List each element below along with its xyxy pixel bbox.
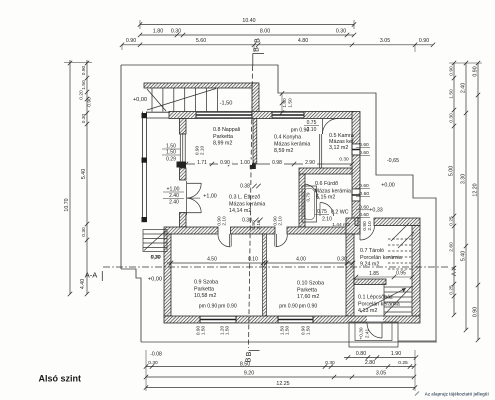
site boundary left segment	[121, 65, 141, 342]
svg-text:0.2 WC: 0.2 WC	[331, 210, 349, 216]
wall south main	[164, 316, 420, 323]
section line A-A	[103, 266, 448, 268]
porch outer	[349, 322, 398, 347]
svg-text:0.30: 0.30	[337, 257, 347, 263]
window partition west window	[180, 134, 185, 168]
svg-text:0.90: 0.90	[87, 97, 93, 107]
svg-text:0.90: 0.90	[220, 160, 230, 166]
wall east upper b	[352, 155, 360, 189]
svg-text:-0,65: -0,65	[387, 158, 399, 164]
stairs 0.7 diagonals	[391, 223, 409, 241]
svg-text:5.60: 5.60	[196, 38, 206, 44]
svg-text:B: B	[254, 38, 262, 43]
svg-text:pm 0.90: pm 0.90	[279, 304, 298, 310]
ground line	[141, 341, 437, 343]
svg-text:5,15 m2: 5,15 m2	[316, 195, 335, 201]
svg-text:1.50: 1.50	[285, 326, 291, 336]
svg-text:0.98: 0.98	[272, 160, 282, 166]
dimension interior y263	[167, 262, 353, 264]
svg-text:2.90: 2.90	[305, 160, 315, 166]
svg-text:-0.60: -0.60	[358, 191, 369, 197]
dimension row 1.80 0.30 8.00 0.30	[140, 34, 354, 36]
wall deck north	[144, 83, 258, 88]
svg-text:0.90: 0.90	[449, 66, 455, 76]
svg-text:0.60: 0.60	[359, 183, 369, 189]
door room 0.10	[274, 234, 276, 247]
svg-text:5.40: 5.40	[461, 251, 467, 261]
svg-text:12.20: 12.20	[473, 183, 479, 196]
window konyha north	[272, 112, 304, 117]
porch inner	[355, 322, 392, 341]
svg-text:1.50: 1.50	[201, 326, 207, 336]
svg-text:1.50: 1.50	[288, 98, 294, 108]
door kamra	[322, 119, 324, 135]
wall west lower	[164, 234, 171, 316]
bathtub	[302, 186, 317, 222]
dimension row 9.20 3.05	[146, 376, 414, 378]
pillar west 1	[142, 113, 147, 118]
wall east main	[412, 226, 420, 317]
stairs 0.1 arrow	[360, 288, 406, 312]
svg-text:8,99 m2: 8,99 m2	[213, 141, 232, 147]
svg-text:1.50: 1.50	[282, 98, 288, 108]
dimension 1.50/1.50 deck east	[281, 93, 283, 113]
dimension row 0.80 1.90	[344, 357, 416, 359]
svg-text:0.7 Tároló: 0.7 Tároló	[360, 248, 384, 254]
svg-text:0.60: 0.60	[359, 150, 369, 156]
door 0.7	[359, 226, 361, 241]
svg-text:pm 0.90: pm 0.90	[199, 304, 218, 310]
svg-text:10.40: 10.40	[242, 18, 255, 24]
dimension row 0.90 5.60 4.80 3.05 0.90	[122, 44, 433, 46]
svg-text:3.05: 3.05	[376, 371, 386, 377]
dimension chain right 2	[465, 63, 467, 330]
svg-text:2.10: 2.10	[322, 217, 332, 223]
stairs 0.1 lépcsőház	[384, 283, 412, 316]
svg-text:3.30: 3.30	[461, 174, 467, 184]
svg-text:0.75: 0.75	[307, 120, 317, 126]
svg-text:2.40: 2.40	[461, 83, 467, 93]
svg-text:pm 0.90: pm 0.90	[218, 304, 237, 310]
svg-text:0.90: 0.90	[126, 38, 136, 44]
svg-text:0.95: 0.95	[396, 271, 406, 277]
wall middle a	[164, 227, 218, 234]
svg-text:2.10: 2.10	[221, 216, 227, 226]
svg-text:0.9 Szoba: 0.9 Szoba	[194, 280, 218, 286]
svg-text:0.60: 0.60	[359, 142, 369, 148]
svg-text:1.44 m2: 1.44 m2	[332, 222, 350, 228]
svg-text:0.30: 0.30	[148, 360, 158, 366]
svg-text:0.90: 0.90	[81, 65, 87, 75]
wall partition 0.9/0.10	[263, 234, 267, 316]
window nappali north	[196, 112, 252, 117]
svg-text:8.00: 8.00	[260, 28, 270, 34]
svg-text:1.50: 1.50	[306, 326, 312, 336]
svg-text:B: B	[245, 351, 253, 356]
svg-text:0.6 Fürdő: 0.6 Fürdő	[315, 181, 338, 187]
pillar west 2	[142, 158, 147, 163]
dimension row 12.25	[146, 387, 415, 389]
wall étkező/fürdő	[299, 174, 305, 227]
svg-text:9.20: 9.20	[244, 371, 254, 377]
svg-text:Mázas kerámia: Mázas kerámia	[274, 141, 310, 147]
section line B-B	[249, 66, 253, 348]
svg-text:17,60 m2: 17,60 m2	[297, 294, 319, 300]
svg-text:2.80: 2.80	[365, 360, 375, 366]
dimension interior y277 (1.85 / 0.95)	[356, 276, 412, 278]
svg-text:+0,00: +0,00	[133, 97, 147, 103]
svg-text:4.00: 4.00	[296, 257, 306, 263]
svg-text:4.80: 4.80	[298, 38, 308, 44]
wall partition west lower	[180, 213, 187, 228]
svg-text:0.60: 0.60	[359, 204, 369, 210]
dimension interior y163	[186, 163, 352, 165]
svg-text:0.10: 0.10	[248, 257, 258, 263]
pillar partition at dim line	[177, 162, 187, 168]
svg-text:0.38: 0.38	[242, 217, 252, 223]
stairs 0.7 overhead dashed	[388, 239, 412, 269]
svg-text:+0,33: +0,33	[369, 208, 383, 214]
svg-text:9,24 m2: 9,24 m2	[360, 262, 379, 268]
svg-text:0.30: 0.30	[171, 28, 181, 34]
svg-text:1.50: 1.50	[225, 326, 231, 336]
svg-text:1.80: 1.80	[153, 28, 163, 34]
svg-text:0.30: 0.30	[336, 28, 346, 34]
svg-text:0.60: 0.60	[359, 212, 369, 218]
svg-text:8,59 m2: 8,59 m2	[274, 148, 293, 154]
svg-text:Parketta: Parketta	[297, 287, 317, 293]
svg-text:0.38: 0.38	[240, 184, 250, 190]
svg-text:8.50: 8.50	[240, 362, 250, 368]
svg-text:Porcelán kerámia: Porcelán kerámia	[358, 301, 400, 307]
svg-text:+0,30: +0,30	[359, 327, 365, 339]
svg-text:Alsó szint: Alsó szint	[39, 374, 82, 384]
wall partition west mid	[180, 168, 187, 180]
svg-text:0.30: 0.30	[81, 113, 87, 123]
svg-text:0.90: 0.90	[473, 307, 479, 317]
pillar west 3	[142, 217, 147, 222]
wall middle c	[287, 227, 355, 234]
stairs deck	[147, 88, 217, 112]
svg-text:Parketta: Parketta	[213, 134, 233, 140]
wall west colonnade	[141, 112, 143, 223]
wall deck east	[252, 83, 259, 113]
wall section north	[374, 218, 420, 226]
svg-text:Porcelán kerámia: Porcelán kerámia	[360, 255, 402, 261]
svg-text:2.10: 2.10	[367, 221, 373, 231]
svg-text:4.40: 4.40	[80, 279, 86, 289]
svg-text:1.00: 1.00	[240, 160, 250, 166]
svg-text:3,12 m2: 3,12 m2	[329, 145, 348, 151]
svg-text:Parketta: Parketta	[194, 286, 214, 292]
svg-text:0.75: 0.75	[317, 209, 327, 215]
svg-text:0.25: 0.25	[449, 216, 455, 226]
svg-text:0.10 Szoba: 0.10 Szoba	[297, 281, 324, 287]
window szoba 0.9 south	[200, 316, 236, 322]
pillar at étkező	[250, 164, 256, 170]
svg-text:0.20: 0.20	[79, 90, 85, 100]
svg-text:pm 0.90: pm 0.90	[291, 128, 310, 134]
svg-text:0.30: 0.30	[81, 227, 87, 237]
svg-text:3.05: 3.05	[380, 38, 390, 44]
wall 0.10/section	[346, 234, 354, 316]
wall section north w	[355, 218, 358, 226]
svg-text:2.10: 2.10	[199, 146, 205, 156]
wall partition west upper	[180, 119, 187, 135]
svg-text:10.70: 10.70	[64, 198, 70, 211]
section marker B bottom	[249, 350, 260, 352]
svg-text:+1,00: +1,00	[167, 187, 180, 193]
svg-text:1.71: 1.71	[197, 160, 207, 166]
svg-text:0.4 Konyha: 0.4 Konyha	[274, 135, 301, 141]
svg-text:pm 0.90: pm 0.90	[299, 304, 318, 310]
svg-text:0.80: 0.80	[356, 351, 366, 357]
wall north main	[169, 112, 355, 119]
svg-text:+1,00: +1,00	[203, 194, 217, 200]
svg-text:5.40: 5.40	[81, 169, 87, 179]
svg-text:Mázas kerámia: Mázas kerámia	[315, 188, 351, 194]
svg-text:2.40: 2.40	[169, 193, 179, 199]
svg-text:Mázas kerámia: Mázas kerámia	[229, 201, 265, 207]
dimension row 0.30 8.50 0.30 2.80 0.25	[146, 366, 414, 368]
svg-text:0.25: 0.25	[398, 360, 408, 366]
svg-text:B: B	[253, 47, 261, 52]
door south exit	[381, 323, 383, 338]
svg-text:2.40: 2.40	[169, 200, 179, 206]
svg-text:Az alaprajz tájékoztató jelleg: Az alaprajz tájékoztató jellegű!	[425, 392, 490, 397]
svg-text:-1,50: -1,50	[220, 101, 233, 107]
wall nappali/konyha partition	[253, 119, 257, 164]
svg-text:0.25: 0.25	[449, 285, 455, 295]
wall junction east	[346, 218, 360, 234]
svg-text:0,79: 0,79	[306, 192, 311, 201]
svg-text:2.10: 2.10	[277, 216, 283, 226]
door room 0.9	[229, 234, 231, 247]
svg-text:-0.08: -0.08	[150, 352, 162, 358]
window szoba 0.10 south	[278, 316, 313, 322]
dimension 10.40 top row	[140, 24, 354, 26]
svg-text:0.3 L. Étkező: 0.3 L. Étkező	[229, 194, 260, 201]
wall east upper a	[352, 112, 360, 145]
svg-text:1.85: 1.85	[369, 271, 379, 277]
wall middle b	[231, 227, 276, 234]
dimension chain right 3	[477, 63, 479, 340]
dimension chain left outer 10.70	[69, 60, 71, 294]
svg-text:1.50: 1.50	[81, 80, 87, 90]
svg-text:5.00: 5.00	[449, 166, 455, 176]
svg-text:0.90: 0.90	[473, 66, 479, 76]
svg-text:0.30: 0.30	[339, 157, 349, 163]
wall east upper c	[352, 201, 360, 227]
svg-text:2.41: 2.41	[365, 329, 371, 339]
svg-text:0.30: 0.30	[325, 360, 335, 366]
svg-text:10,58 m2: 10,58 m2	[194, 293, 216, 299]
door double étkező west	[187, 182, 202, 184]
svg-text:0.29: 0.29	[166, 157, 176, 163]
door wc	[320, 203, 334, 217]
wall konyha/fürdő	[299, 168, 352, 174]
svg-text:1.50: 1.50	[166, 150, 176, 156]
svg-text:0.30: 0.30	[449, 113, 455, 123]
svg-text:2.60: 2.60	[449, 242, 455, 252]
svg-text:0.90: 0.90	[419, 38, 429, 44]
site boundary outline	[121, 65, 436, 341]
svg-text:0.8 Nappali: 0.8 Nappali	[213, 127, 240, 133]
svg-text:0.1 Lépcsőház: 0.1 Lépcsőház	[358, 295, 393, 301]
stairs west small	[143, 230, 167, 252]
svg-text:4,13 m2: 4,13 m2	[358, 308, 377, 314]
svg-text:4.50: 4.50	[207, 257, 217, 263]
svg-text:+0,00: +0,00	[381, 183, 395, 189]
svg-text:1.90: 1.90	[391, 351, 401, 357]
svg-text:A-A: A-A	[451, 265, 458, 276]
window east niche b	[352, 189, 360, 201]
opening south exit	[367, 316, 383, 322]
svg-text:+0,00: +0,00	[148, 277, 162, 283]
window east niche a	[352, 144, 360, 155]
svg-text:14,14 m2: 14,14 m2	[229, 208, 251, 214]
dimension chain right 1	[453, 63, 455, 315]
svg-text:1.50: 1.50	[449, 89, 455, 99]
wall kamra partition	[319, 134, 321, 168]
svg-text:12.25: 12.25	[276, 381, 289, 387]
wall 0.7/0.1	[354, 279, 386, 285]
wall top edge at colonnade	[146, 111, 169, 113]
dimension chain left inner	[86, 60, 88, 294]
svg-text:0,30: 0,30	[151, 254, 161, 260]
door fürdő	[305, 184, 318, 199]
